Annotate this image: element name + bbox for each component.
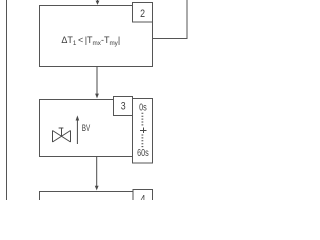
- wire: arrow entering box 2 from top: [96, 0, 100, 5]
- wire: arrow box 2 to box 3: [95, 67, 99, 99]
- wire: left feedback line: [6, 0, 8, 200]
- svg-text:60s: 60s: [137, 147, 149, 158]
- svg-text:4: 4: [140, 194, 145, 200]
- wire: arrow box 3 to box 4: [95, 157, 99, 191]
- text: 60s: [137, 147, 149, 158]
- svg-text:3: 3: [121, 101, 126, 113]
- label box 2: [133, 3, 153, 23]
- dotted separator upper: [141, 113, 143, 127]
- label box 4: [133, 190, 153, 209]
- svg-text:BV: BV: [82, 123, 91, 133]
- dotted separator lower: [141, 135, 143, 148]
- label box 3: [114, 97, 133, 116]
- text: BV: [82, 123, 91, 133]
- timer box 0s..60s: [133, 99, 153, 164]
- text: reference numeral 2: [140, 8, 145, 20]
- text: 0s: [139, 101, 147, 112]
- svg-text:ΔT1<|Tmx-Tmy|: ΔT1<|Tmx-Tmy|: [61, 35, 120, 47]
- text: reference numeral 3: [121, 101, 126, 113]
- text: condition formula dT1 < |Tmx-Tmy|: [61, 35, 120, 47]
- svg-text:2: 2: [140, 8, 145, 20]
- plus sign: [140, 128, 147, 134]
- wire: connector from box 2 right edge up to top: [153, 0, 188, 39]
- text: reference numeral 4: [140, 194, 145, 206]
- valve BV: bowtie symbol: [53, 131, 71, 143]
- process box 2 (condition box): [40, 6, 153, 67]
- wire: up arrow beside valve: [76, 115, 80, 144]
- process box 4 (bottom, cropped): [40, 192, 153, 212]
- process box 3 (valve actuation box): [40, 100, 133, 157]
- valve stem: [59, 128, 64, 136]
- svg-text:0s: 0s: [139, 101, 147, 112]
